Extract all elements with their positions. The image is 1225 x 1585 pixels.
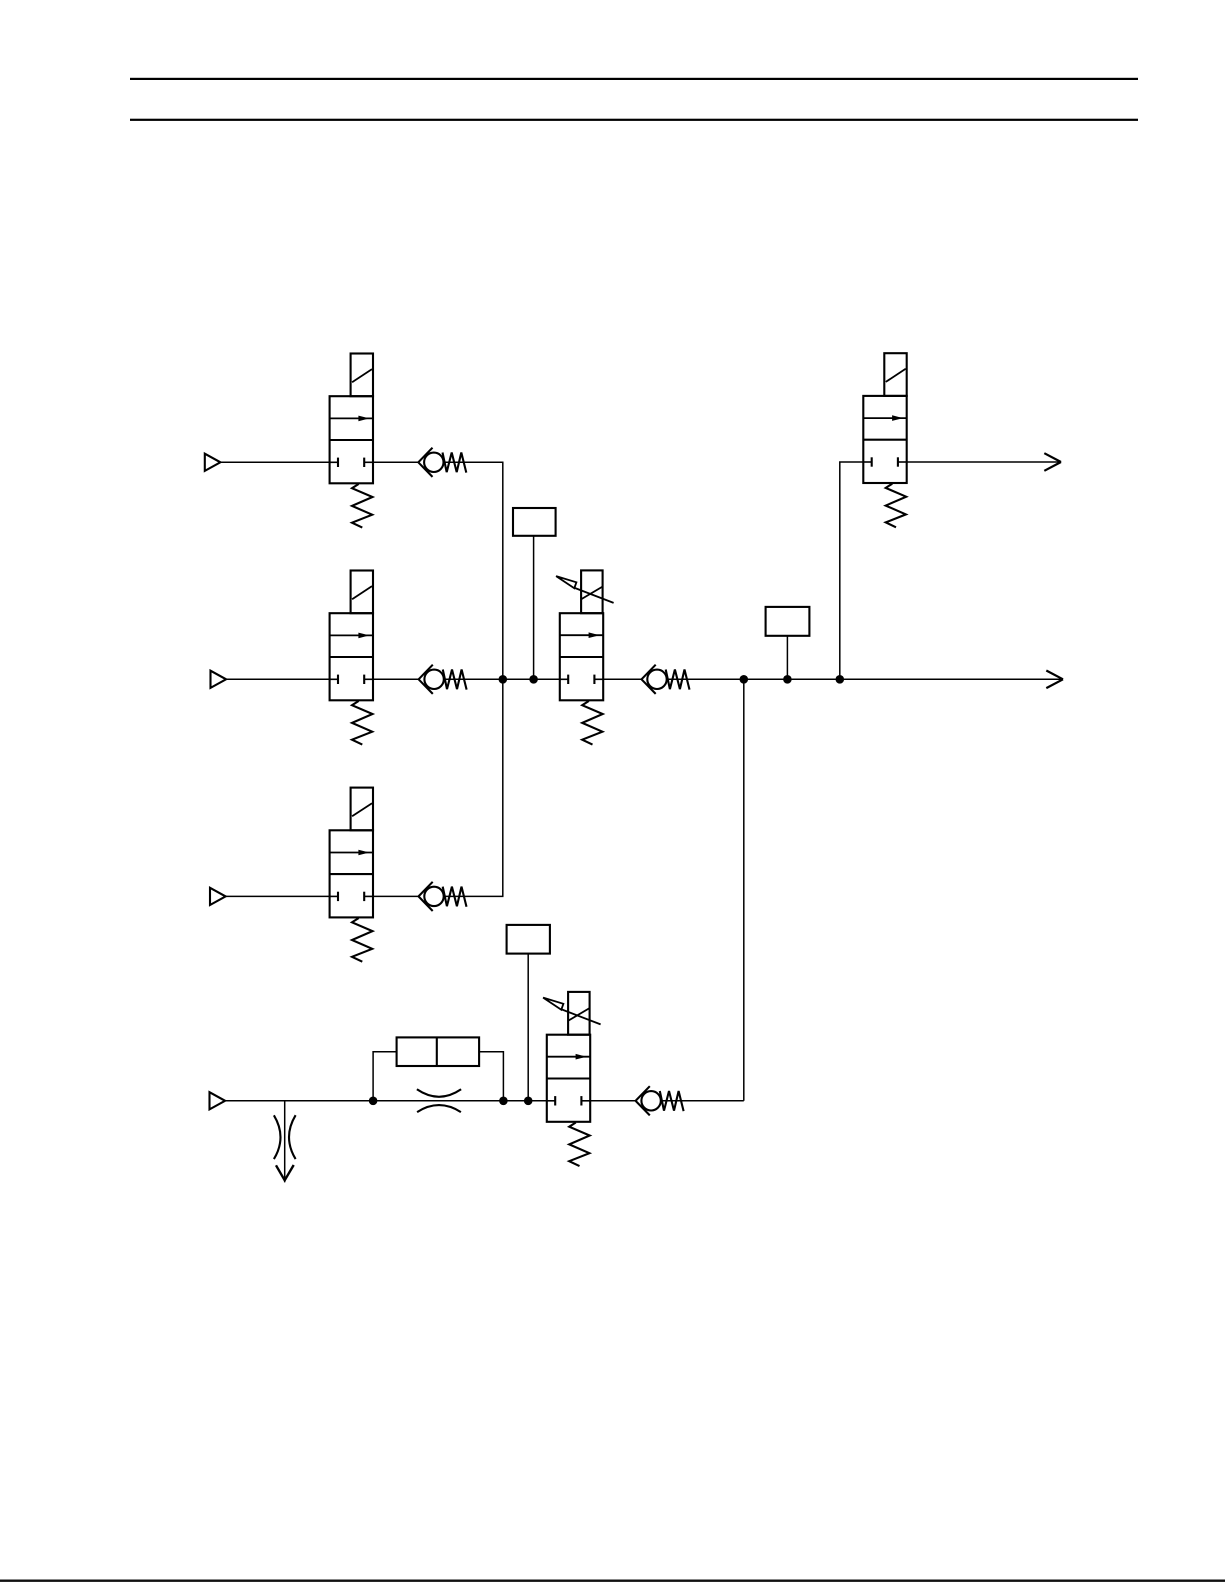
check valve CV1 bbox=[418, 448, 466, 477]
wire V1 to CV1 bbox=[373, 461, 418, 463]
exhaust branch wire bbox=[284, 1101, 286, 1183]
footer rule bbox=[0, 1580, 1225, 1582]
node output arrow row1 bbox=[1044, 453, 1061, 471]
exhaust restriction arcs bbox=[274, 1115, 281, 1159]
wire row2 output bbox=[667, 678, 1063, 680]
node P2 input triangle row2 bbox=[211, 671, 227, 688]
junction V4 branch bbox=[836, 675, 845, 684]
valve V1 solenoid 3/2 row1 bbox=[329, 354, 373, 528]
wire CV1 to bus bbox=[444, 461, 504, 463]
junction riser row2 bbox=[740, 675, 749, 684]
valve V3 solenoid 3/2 row3 bbox=[329, 788, 373, 962]
check valve CV2a bbox=[419, 665, 467, 694]
regulator REG1 bbox=[556, 570, 614, 744]
exhaust arrow bbox=[276, 1165, 294, 1180]
orifice check divider bbox=[436, 1037, 438, 1066]
check valve CV3 bbox=[419, 882, 467, 911]
regulator REG2 bbox=[543, 992, 601, 1166]
wire V4 output bbox=[907, 461, 1061, 463]
orifice check body bbox=[397, 1037, 480, 1066]
check valve CV2 bbox=[642, 665, 690, 694]
junction G3 bbox=[524, 1097, 533, 1106]
junction G2 bbox=[783, 675, 792, 684]
wire REG2 to CV4 bbox=[590, 1100, 635, 1102]
wire row2 inlet bbox=[226, 678, 330, 680]
wire G2 stub bbox=[786, 636, 788, 680]
wire CV3 to bus bbox=[444, 895, 504, 897]
wire bypass right riser bbox=[479, 1052, 503, 1101]
wire CV4 to riser bbox=[661, 1100, 744, 1102]
wire V4 input riser bbox=[840, 462, 864, 679]
gauge G2 box bbox=[766, 607, 810, 636]
wire CV2a to REG1 bbox=[444, 678, 560, 680]
wire G3 stub bbox=[527, 954, 529, 1101]
valve V2 solenoid 3/2 row2 bbox=[329, 571, 373, 745]
header rule top bbox=[130, 78, 1138, 80]
wire G1 stub bbox=[533, 536, 535, 680]
node output arrow row2 bbox=[1046, 671, 1063, 689]
node P4 input triangle row4 bbox=[210, 1092, 226, 1109]
wire V2 to CV2a bbox=[373, 678, 419, 680]
header rule bottom bbox=[130, 119, 1138, 121]
check valve CV4 bbox=[636, 1086, 684, 1115]
gauge G1 box bbox=[513, 508, 556, 536]
wire bypass left riser bbox=[373, 1052, 397, 1101]
wire bus vertical bbox=[502, 462, 504, 896]
wire row1 inlet bbox=[220, 461, 329, 463]
wire V3 to CV3 bbox=[373, 895, 419, 897]
junction bus row2 bbox=[499, 675, 508, 684]
wire REG1 to CV2 bbox=[603, 678, 641, 680]
wire riser row4 to row2 bbox=[743, 679, 745, 1101]
throttle arcs row4 bbox=[417, 1089, 461, 1097]
wire row3 inlet bbox=[226, 895, 330, 897]
junction bypass right bbox=[499, 1097, 508, 1106]
node P1 input triangle row1 bbox=[205, 454, 221, 471]
junction G1 bbox=[529, 675, 538, 684]
junction bypass left bbox=[369, 1097, 378, 1106]
node P3 input triangle row3 bbox=[210, 888, 226, 905]
valve V4 solenoid 3/2 top right bbox=[863, 353, 907, 527]
gauge G3 box bbox=[507, 925, 550, 954]
wire row4 inlet bbox=[225, 1100, 547, 1102]
